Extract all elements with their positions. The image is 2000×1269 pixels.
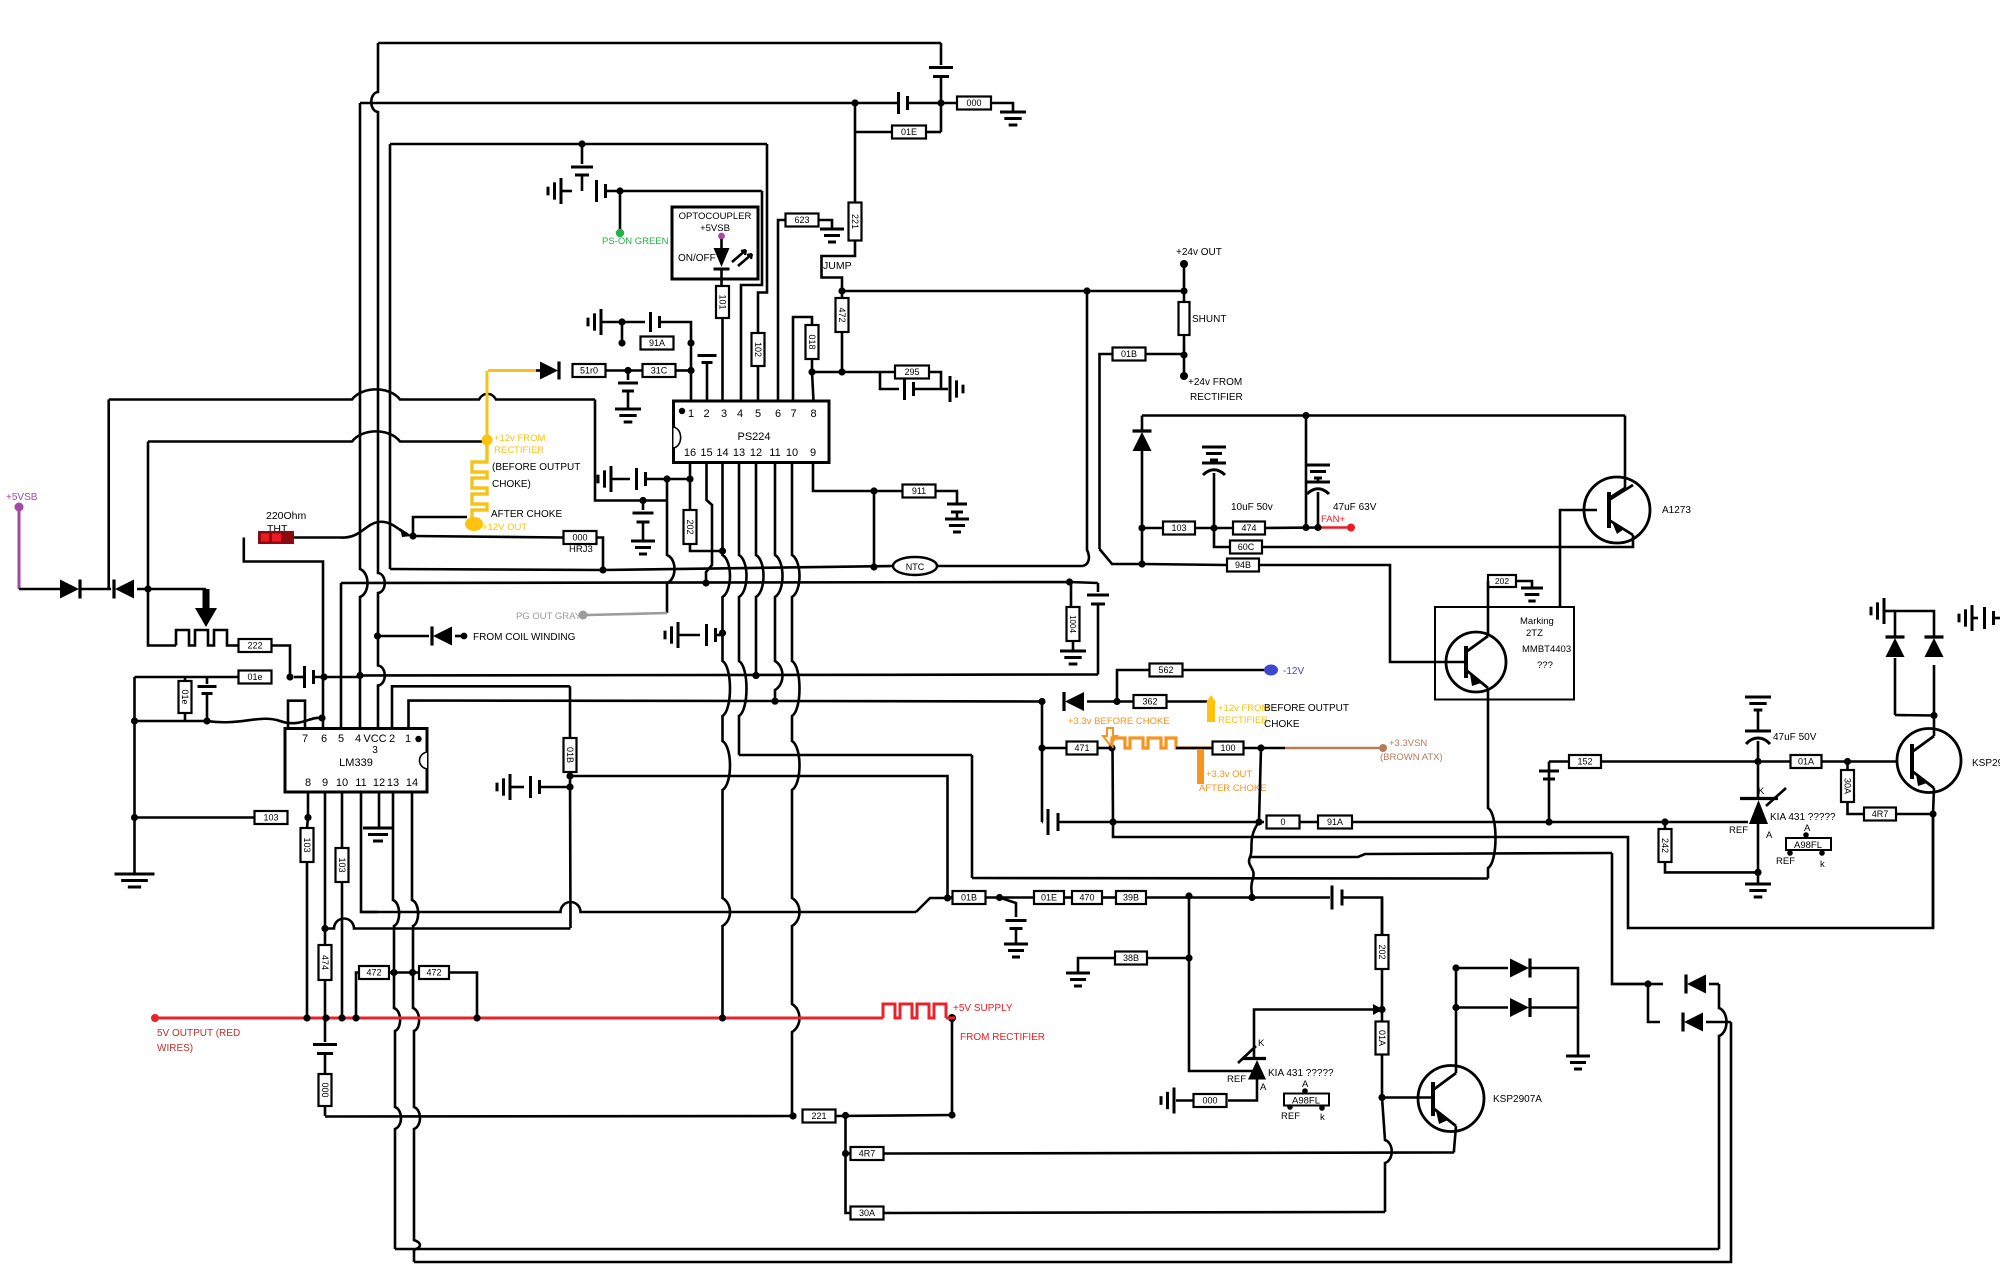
wire +5V supply drop (951, 1018, 954, 1115)
wire 623 right to ground (819, 220, 833, 229)
wire rail y675 hairpin west from cap to LM339 pin4 junction (360, 675, 1098, 676)
wire rail y399 from elbow x108 east with hops (109, 389, 595, 399)
wire pin12 down to rail675 (756, 463, 764, 676)
svg-text:3: 3 (721, 408, 727, 420)
resistor 31C (643, 364, 676, 377)
resistor 4R7 bottom (851, 1147, 884, 1160)
svg-text:202: 202 (1495, 576, 1509, 586)
wire inner rect top y144 from x390 to x767 (390, 143, 767, 146)
node yellow +12V OUT blob (465, 517, 483, 531)
capacitor H at (655,322) (649, 312, 652, 332)
svg-text:+5V SUPPLY: +5V SUPPLY (953, 1003, 1013, 1014)
svg-text:3: 3 (372, 745, 378, 756)
svg-text:ON/OFF: ON/OFF (678, 253, 716, 264)
resistor 102 vertical above pin5 (752, 333, 765, 366)
wire 31C right to pin1 column (676, 369, 692, 372)
diode vertical up right pair d1 (1886, 638, 1905, 657)
svg-text:10: 10 (786, 447, 798, 459)
svg-text:8: 8 (305, 777, 311, 789)
resistor 103 vertical second (336, 848, 349, 882)
svg-text:14: 14 (406, 777, 418, 789)
svg-text:000: 000 (320, 1082, 330, 1097)
resistor 103 horizontal (255, 811, 288, 824)
svg-text:K: K (1758, 786, 1765, 797)
wire x874 down to NTC rail (873, 491, 876, 566)
svg-text:FROM COIL WINDING: FROM COIL WINDING (473, 632, 576, 643)
resistor 38B (1115, 952, 1147, 965)
ground below 911 cap (945, 518, 969, 521)
svg-text:101: 101 (717, 294, 727, 309)
wire 01B bottom down to row927 corner (569, 772, 572, 928)
ground above 10uF cap (1202, 446, 1226, 449)
svg-text:12: 12 (373, 777, 385, 789)
svg-text:60C: 60C (1238, 542, 1255, 552)
resistor 01E row898 (1034, 891, 1064, 904)
resistor 39B row898 (1116, 891, 1146, 904)
resistor 103 fan row (1163, 522, 1195, 535)
wire 562 link north from rail701 (1117, 670, 1149, 702)
resistor 470 row898 (1072, 891, 1102, 904)
transistor Q4 KSP2907A (1418, 1066, 1484, 1132)
resistor 01A vertical right (1381, 1010, 1384, 1023)
diode D at 51r0 row pointing right (540, 362, 558, 380)
resistor 30A bottom (851, 1207, 884, 1220)
svg-text:91A: 91A (649, 338, 665, 348)
diode D2 pointing left at 5VSB row (115, 580, 134, 599)
resistor 1004 vertical (1070, 583, 1073, 607)
ground above 47uF63V cap (1306, 464, 1330, 467)
node purple +5VSB dot in optocoupler (718, 233, 725, 240)
wire diode pair feed (1452, 964, 1459, 971)
junction dot x324 y677 (320, 673, 327, 680)
wire 101 to PS224 pin3 (721, 318, 724, 401)
wire 152 to 47uF node (1601, 760, 1790, 763)
svg-text:9: 9 (810, 447, 816, 459)
wire cap to PS-ON node then to x762 (606, 190, 762, 193)
wire cap to corner x691 (659, 322, 691, 343)
wire 242 link (1664, 822, 1667, 829)
resistor 295 (895, 366, 929, 379)
wire A1273 emitter down to 60C row (1262, 535, 1633, 547)
svg-text:PS-ON GREEN: PS-ON GREEN (602, 236, 669, 247)
resistor 01E top right (892, 126, 926, 139)
resistor 01B row898 (953, 891, 986, 904)
resistor 01B vertical mid left (564, 738, 577, 772)
inductor orange choke 3.3v (1112, 738, 1211, 748)
capacitor at pin14 y635 (678, 634, 700, 637)
capacitor polar 47uF 63V (1317, 478, 1320, 482)
diode right side pointing left lower (1684, 1013, 1703, 1032)
wire 000 right to ground (991, 103, 1013, 112)
svg-text:4: 4 (355, 733, 361, 745)
wire rail912 from LM339 pin11 east to jog x947 (361, 902, 916, 912)
svg-text:CHOKE: CHOKE (1264, 719, 1300, 730)
wire 01B right to shunt (1146, 353, 1185, 356)
svg-text:BEFORE OUTPUT: BEFORE OUTPUT (1264, 703, 1349, 714)
svg-text:FROM RECTIFIER: FROM RECTIFIER (960, 1032, 1045, 1043)
svg-text:01e: 01e (247, 672, 262, 682)
svg-text:362: 362 (1142, 697, 1157, 707)
wire vertical x148 down to diode junction (147, 442, 150, 590)
wire 60C left jog to fan row (1214, 528, 1230, 547)
resistor 0 (1267, 816, 1300, 829)
svg-text:AFTER CHOKE: AFTER CHOKE (491, 509, 562, 520)
wire row837 from T x1113 east corner x1628 south east to emitter (1113, 816, 1933, 928)
node -12V blue dot (1264, 665, 1278, 676)
svg-text:2TZ: 2TZ (1526, 628, 1543, 639)
resistor 103 vertical below pin8 (307, 818, 308, 829)
wire rail y415 from x1142 to A1273 collector x1625 (1142, 414, 1625, 417)
resistor 000 HRJ3 (564, 531, 597, 544)
svg-text:11: 11 (769, 447, 780, 459)
svg-text:470: 470 (1079, 893, 1094, 903)
wire 000 to ground left (1176, 1099, 1194, 1102)
wire PS224 pin7 jog to 018 (793, 317, 812, 401)
svg-text:RECTIFIER: RECTIFIER (494, 445, 544, 456)
capacitor H under 295 (903, 378, 906, 400)
transistor Q1 A1273 (1584, 477, 1650, 543)
svg-text:018: 018 (807, 334, 817, 349)
wire 4R7 to emitter dot (1896, 813, 1933, 816)
ground bottom of left rail (115, 873, 155, 876)
diode FROM COIL WINDING pointing left (374, 632, 381, 639)
capacitor small at x207 below 01e row (206, 677, 209, 684)
wire THT wavy to +12V OUT node with arrowhead (294, 522, 407, 538)
wire x1142 down to up-diode (1141, 416, 1144, 431)
svg-text:HRJ3: HRJ3 (569, 544, 593, 555)
wire x1648 down to second diode row (1648, 984, 1660, 1022)
svg-text:SHUNT: SHUNT (1192, 314, 1226, 325)
svg-text:+5VSB: +5VSB (6, 492, 38, 503)
svg-text:471: 471 (1074, 743, 1089, 753)
resistor 471 (1067, 742, 1098, 755)
svg-text:NTC: NTC (906, 562, 925, 572)
wire rail y701 continues east to yellow node (770, 700, 1042, 703)
svg-text:A: A (1260, 1082, 1267, 1093)
wire rail1117 from 000chain east to 221 (325, 1115, 793, 1118)
wire bottom rail y1249 from x395 to x1719 (395, 1248, 1719, 1251)
wire purple +5VSB down (18, 511, 21, 589)
wire 01E leads (854, 126, 857, 132)
capacitor vertical x1098 rail583 to rail675 (1097, 583, 1100, 592)
svg-text:472: 472 (837, 307, 847, 322)
wire row878 from x972 east to MMBT emitter corner (972, 877, 1488, 880)
svg-text:94B: 94B (1235, 560, 1251, 570)
wire MMBT emitter down to row878 east end (1488, 688, 1496, 879)
light arrows of optocoupler (732, 250, 752, 266)
svg-text:9: 9 (322, 777, 328, 789)
svg-text:38B: 38B (1123, 953, 1139, 963)
resistor 474 vertical (319, 945, 332, 980)
svg-text:JUMP: JUMP (823, 260, 852, 272)
capacitor below row500 at x643 (642, 501, 645, 511)
svg-text:474: 474 (1241, 523, 1256, 533)
resistor 474 fan row (1233, 522, 1265, 535)
svg-text:+12V OUT: +12V OUT (482, 522, 527, 533)
junction dot pin13 between 472s (390, 969, 397, 976)
svg-text:1004: 1004 (1068, 615, 1077, 633)
annotation arrow pointing down at coil (195, 589, 217, 627)
wire 202 to ground (1516, 581, 1532, 588)
svg-text:103: 103 (263, 813, 278, 823)
svg-text:6: 6 (775, 408, 781, 420)
wire bottom rail y1262 from x414 to x1731 (414, 1022, 1731, 1262)
wire cap parallel under 295 (880, 372, 899, 389)
wire KSP2907A collector up (1455, 968, 1458, 1073)
svg-text:+12v FROM: +12v FROM (1218, 703, 1270, 714)
wire 472 bottom to row372 (841, 332, 844, 372)
svg-text:000: 000 (1202, 1096, 1217, 1106)
capacitor under 51r0/31C junction (627, 371, 630, 381)
wire LED to 101 (720, 269, 723, 285)
ground and capacitor at right edge (1971, 605, 1974, 631)
svg-text:+24v OUT: +24v OUT (1176, 247, 1222, 258)
wire brown +3.3VSN (1285, 747, 1379, 750)
capacitor H right of 01e (303, 666, 306, 688)
svg-text:01B: 01B (565, 747, 575, 763)
svg-text:472: 472 (426, 968, 441, 978)
orange bar +3.3v out marker (1197, 750, 1204, 784)
wire diode down to 94B junction (1141, 451, 1144, 564)
resistor 101 vertical (716, 286, 729, 318)
svg-text:15: 15 (700, 447, 712, 459)
resistor 51r0 (573, 364, 606, 377)
wire coil to 222 (233, 644, 238, 647)
svg-text:+3.3VSN: +3.3VSN (1389, 738, 1427, 749)
svg-text:Marking: Marking (1520, 616, 1554, 627)
svg-text:5V OUTPUT (RED: 5V OUTPUT (RED (157, 1028, 240, 1039)
wire 018 junction down to PS224 pin8 (812, 372, 814, 401)
ground below 1004 (1072, 641, 1075, 651)
wire row y372 from 018 to 295 (812, 371, 895, 374)
wire 39B east to cap at 1337 (1146, 896, 1330, 899)
ground under that cap (615, 408, 641, 411)
wire 242 bottom east to anode (1665, 862, 1758, 872)
wire cap to 202 corner (1342, 898, 1382, 936)
resistor 472 second (419, 966, 449, 979)
svg-text:220Ohm: 220Ohm (266, 510, 307, 522)
wire LM339 pin2 jog east to 01B column (392, 686, 570, 728)
svg-text:01A: 01A (1798, 757, 1814, 767)
capacitor + ground hanging at x1016 (1000, 898, 1017, 918)
wire left rail x134 down to ground (133, 677, 136, 874)
wire row822 T to 0 resistor (1113, 821, 1264, 824)
wire shunt bottom (1183, 335, 1186, 355)
wire rail y442 from elbow x148 east to yellow node (148, 431, 484, 441)
wire KIA2 anode down west to 000 (1228, 1080, 1257, 1101)
svg-text:242: 242 (1660, 838, 1670, 853)
svg-text:k: k (1820, 859, 1825, 870)
wire KSP2907A base west (1382, 1096, 1433, 1099)
svg-text:A1273: A1273 (1662, 505, 1691, 516)
wire junction down to coil row (148, 589, 176, 646)
wire A1273 collector up to rail415 (1624, 416, 1627, 489)
wire base lead A1273 (1560, 510, 1597, 607)
wire collector junction up (1933, 665, 1936, 716)
resistor 152 (1569, 755, 1601, 768)
svg-text:A: A (1804, 823, 1811, 834)
wire KIA2 cathode link to 202/01A junction (1254, 1010, 1378, 1059)
inductor yellow choke coil (472, 445, 487, 520)
wire LM339 pin8 down with 103 chain (307, 792, 310, 818)
node PS-ON GREEN dot (616, 229, 624, 237)
capacitor+ground left of 01B bottom (509, 774, 512, 800)
svg-text:7: 7 (790, 408, 796, 420)
wire LM339 pin7 staple (288, 701, 305, 729)
wire pin13 down then east at y755 (739, 463, 747, 756)
svg-text:01B: 01B (1121, 349, 1137, 359)
ground right of cap under 295 (941, 388, 948, 391)
optocoupler U2 box (672, 207, 758, 279)
wire corner to 152 (1549, 760, 1569, 763)
svg-text:10: 10 (336, 777, 348, 789)
svg-text:6: 6 (321, 733, 327, 745)
svg-text:000: 000 (572, 533, 587, 543)
wire row927 from LM339 pin9 chain east to x570 corner (325, 919, 571, 929)
wire pin1 column x691 down to PS224 pin1 (690, 343, 693, 401)
resistor 01e vertical (184, 677, 187, 681)
svg-text:A98FL: A98FL (1292, 1096, 1320, 1107)
IC U1 PS224 box (674, 401, 830, 463)
wire KSP290x collector up to diode pair (1933, 716, 1936, 737)
svg-text:1: 1 (688, 408, 694, 420)
inductor coil L1 (square humps) (176, 630, 233, 646)
wire vertical x360 from rail103 down to LM339 pin4 (360, 103, 368, 729)
wire top rail y43 from x378 to x941 (378, 42, 941, 45)
wire gnd-cap row y322 (601, 321, 645, 324)
wire 018 bottom to row372 (811, 359, 814, 372)
svg-text:01B: 01B (961, 893, 977, 903)
node +24v FROM RECTIFIER (1183, 355, 1186, 376)
svg-text:8: 8 (810, 408, 816, 420)
svg-text:11: 11 (355, 777, 366, 789)
svg-text:14: 14 (716, 447, 728, 459)
ground right of 623 (820, 228, 844, 231)
svg-text:4R7: 4R7 (859, 1149, 876, 1159)
junction dot 221 left (789, 1112, 796, 1119)
wire 01A to base (1822, 760, 1898, 763)
ground left of diode pair (1883, 598, 1886, 624)
resistor THT red component (258, 531, 294, 544)
wire PG OUT GRAY (579, 611, 588, 620)
wire 24v out to junction (1183, 264, 1186, 291)
wire gnd to cap (611, 478, 630, 481)
junction dot x1087 on rail291 (1083, 287, 1090, 294)
wire wavy row y721 to LM339 pin6 area (135, 718, 323, 723)
svg-text:472: 472 (366, 968, 381, 978)
wire from +3.3 coil node down to row822 T (1111, 748, 1114, 822)
svg-text:13: 13 (387, 777, 399, 789)
red pulse waveform (883, 1004, 946, 1018)
svg-text:k: k (1320, 1112, 1325, 1123)
resistor 221 bottom (803, 1110, 836, 1123)
junction dot x582 y144 (578, 140, 585, 147)
capacitor top right C-top at x941 (940, 43, 943, 65)
svg-text:30A: 30A (1842, 778, 1852, 794)
wire KIA1 anode down to ground (1757, 824, 1760, 872)
svg-text:221: 221 (811, 1111, 826, 1121)
resistor 911 (874, 490, 902, 493)
svg-text:30A: 30A (859, 1208, 875, 1218)
wire x972 south from row755 to row878 (971, 755, 974, 878)
wire 103 to 474 (1195, 527, 1232, 530)
svg-text:2: 2 (389, 733, 395, 745)
svg-text:REF: REF (1227, 1074, 1246, 1085)
wire from cap to resistor 000 and junctions (908, 102, 960, 105)
wire between diodes (81, 588, 111, 591)
svg-text:103: 103 (337, 857, 347, 872)
wire pin10 long vertical to 221 junction (792, 463, 800, 1117)
arrow emitter A1273 (PNP) (1612, 522, 1624, 534)
ground under LM339 pin12 (363, 827, 393, 830)
svg-text:474: 474 (320, 955, 330, 970)
svg-text:REF: REF (1281, 1111, 1300, 1122)
wire cap to pin16 junction (646, 478, 691, 481)
resistor SHUNT vertical (1183, 291, 1186, 302)
junction dot PS-ON takeoff x620 y191 (616, 187, 623, 194)
diode right side pointing left upper (1648, 983, 1663, 986)
wire right diode feed row y984 (1612, 983, 1648, 986)
svg-text:PS224: PS224 (737, 431, 770, 443)
wire red 5V OUTPUT line (155, 1017, 883, 1020)
svg-text:KIA 431 ?????: KIA 431 ????? (1770, 812, 1836, 823)
KIA 431 second (1242, 1057, 1266, 1060)
wire vertical x855 from 01E down to 221 (854, 132, 857, 203)
pin1 dot LM339 (415, 736, 421, 742)
capacitor below 911 (947, 503, 967, 506)
svg-text:000: 000 (966, 98, 981, 108)
svg-text:OPTOCOUPLER: OPTOCOUPLER (679, 211, 752, 222)
wire 5VSB row y589 (19, 588, 60, 591)
wire inner rect left x390 down to NTC rail elbow y569 (389, 144, 392, 569)
yellow +12v node and coil (482, 435, 493, 446)
wire NTC rail y569 from x390 east to NTC (390, 566, 893, 570)
junction dot 01e right (286, 673, 293, 680)
wire black under coil row748 (1098, 747, 1113, 750)
wire vertical x855 y103 to 01E row (854, 103, 857, 126)
transistor Q3 KSP2907 right edge (1897, 729, 1961, 793)
svg-text:16: 16 (684, 447, 696, 459)
junction dots on red line (303, 1014, 310, 1021)
svg-text:AFTER CHOKE: AFTER CHOKE (1199, 783, 1267, 794)
wire rail y583 from LM339 pin5 east to cap corner (341, 582, 1098, 583)
wire 30A bottom corner to 4R7 (1848, 802, 1864, 814)
resistor 242 vertical (1659, 829, 1672, 862)
wire between 472s (389, 971, 419, 974)
junction dot x874 on NTC rail (870, 563, 877, 570)
junction dot left of coil (1108, 744, 1115, 751)
resistor 100 (1213, 742, 1244, 755)
LED D-opto inside optocoupler (720, 239, 723, 248)
yellow wire feed into diode (488, 369, 536, 372)
svg-text:LM339: LM339 (339, 757, 373, 769)
wire row755 from pin13 elbow east then south at x972 (739, 754, 972, 757)
wire row748 left segment (1042, 747, 1066, 750)
wire 103-474 row y528 (1142, 527, 1162, 530)
diode pointing left on rail701 (1065, 692, 1084, 711)
svg-text:01E: 01E (901, 127, 917, 137)
wire 01B left corner down x1099 (1100, 354, 1113, 549)
svg-text:4: 4 (737, 408, 743, 420)
wire MMBT base from box edge (1435, 661, 1466, 664)
svg-text:01E: 01E (1041, 893, 1057, 903)
wire 94B row east (1142, 564, 1226, 565)
resistor 30A vertical (1846, 762, 1849, 771)
svg-text:47uF 50V: 47uF 50V (1773, 732, 1817, 743)
diode pointing up at x1142 (1133, 432, 1152, 451)
svg-text:5: 5 (755, 408, 761, 420)
svg-text:4R7: 4R7 (1872, 809, 1889, 819)
